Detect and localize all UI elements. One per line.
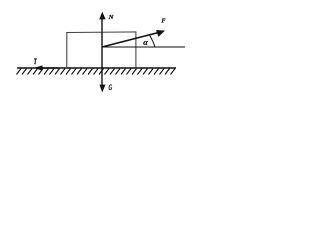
svg-text:N: N xyxy=(108,14,114,21)
svg-text:α: α xyxy=(143,38,148,47)
vertical axis shaft (N up / G down) xyxy=(101,17,103,87)
block (rectangle) xyxy=(66,32,136,68)
ground hatching xyxy=(17,69,176,75)
angle arc xyxy=(150,35,155,47)
force F vector xyxy=(102,33,159,48)
svg-text:G: G xyxy=(109,83,113,92)
svg-text:F: F xyxy=(162,19,166,25)
force N arrowhead xyxy=(99,12,105,20)
horizontal reference line xyxy=(102,46,185,48)
force T (friction) arrow xyxy=(39,67,58,69)
force G arrowhead xyxy=(99,85,105,93)
ground surface line xyxy=(17,67,176,69)
